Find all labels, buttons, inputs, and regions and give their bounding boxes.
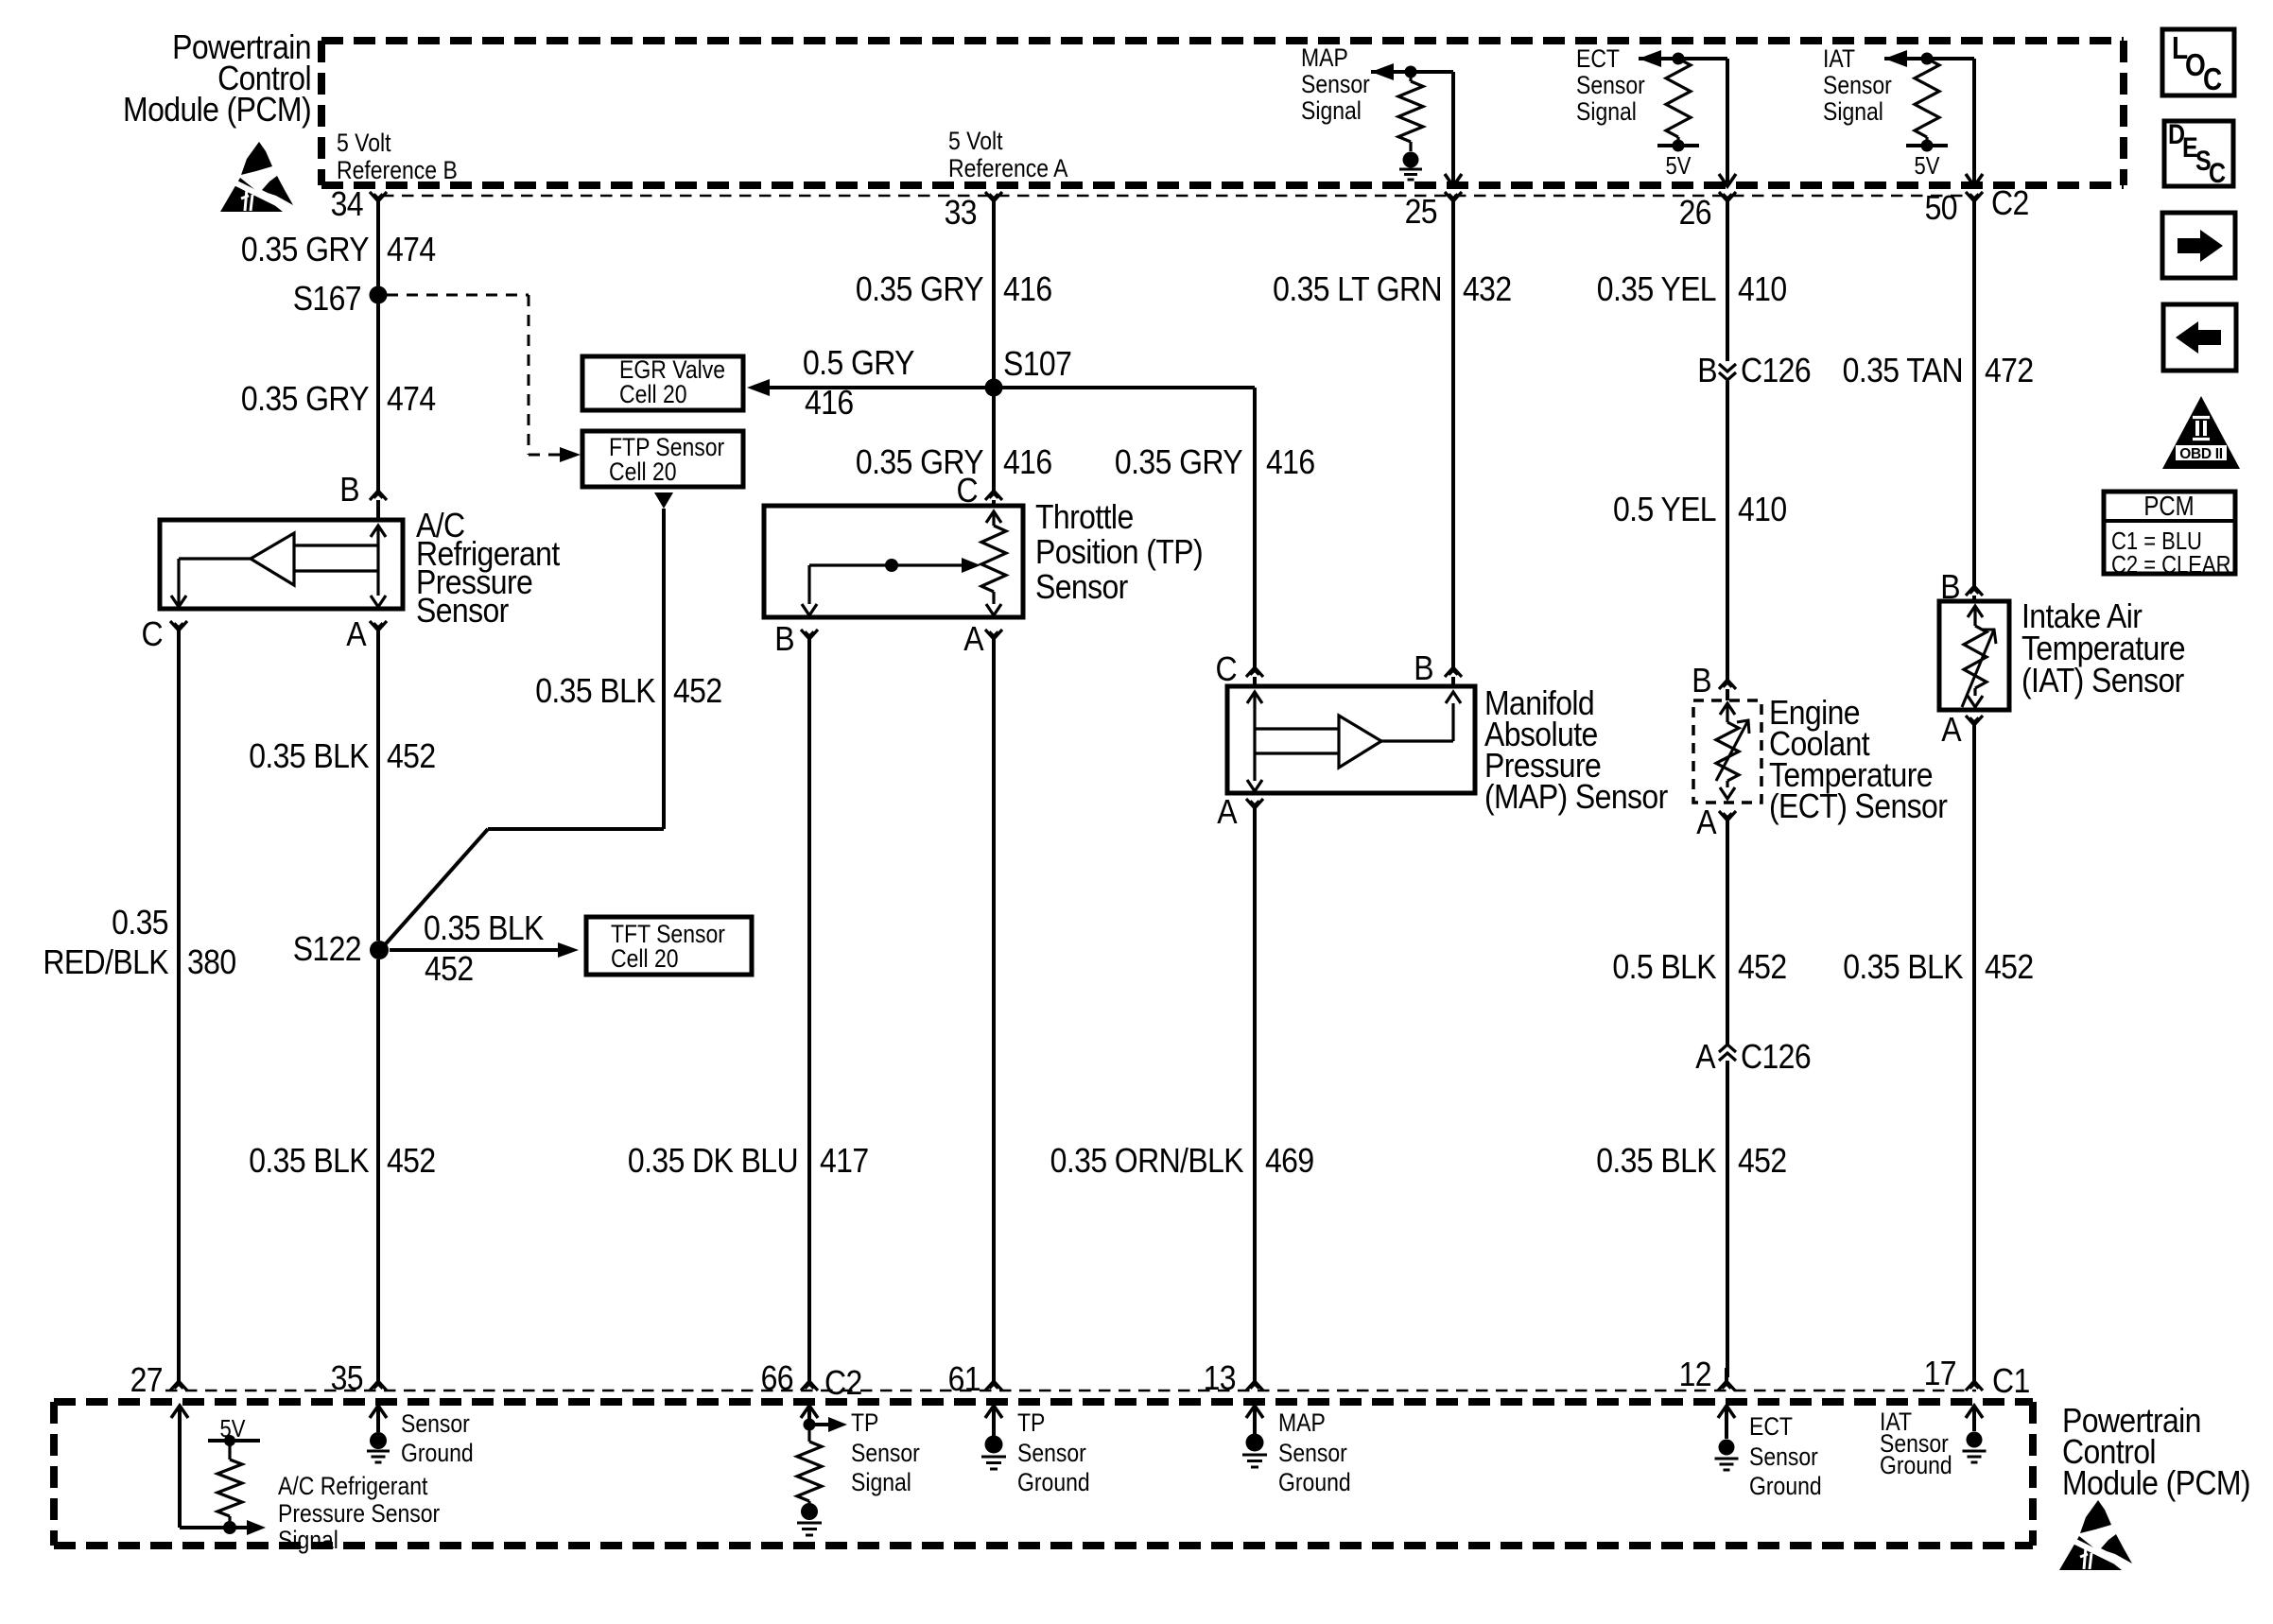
pin label C (MAP sensor) — [1215, 650, 1237, 688]
label 0.35 BLK 452 (bottom) — [249, 1142, 435, 1180]
label Engine Coolant Temperature (ECT) Sensor — [1769, 694, 1948, 825]
label 5V (ECT) — [1666, 152, 1692, 180]
arrow into TFT sensor — [558, 942, 579, 958]
connector pin 13 (PCM bottom) — [1246, 1368, 1263, 1391]
label 0.35 BLK 452 (ECT ground wire) — [1596, 1142, 1786, 1180]
arrow into connector pin 25 — [1445, 174, 1462, 186]
svg-text:C: C — [141, 615, 163, 653]
svg-text:416: 416 — [1003, 270, 1052, 308]
svg-text:Cell 20: Cell 20 — [611, 944, 679, 973]
wire 469 ORN/BLK MAP A to pin13 — [1253, 808, 1257, 1377]
svg-text:0.35 ORN/BLK: 0.35 ORN/BLK — [1050, 1142, 1244, 1180]
svg-text:S122: S122 — [293, 930, 361, 968]
connector pin 66 (PCM bottom) — [801, 1368, 818, 1391]
wire pin26 drop — [1726, 59, 1729, 185]
wire 416 GRY pin33 to S107 — [992, 201, 996, 388]
connector TP sensor pin C — [985, 491, 1002, 506]
icon OBD II triangle — [2162, 396, 2240, 469]
pin label A (TP sensor) — [963, 620, 984, 658]
svg-text:Sensor: Sensor — [416, 592, 509, 630]
svg-text:Reference B: Reference B — [337, 156, 458, 184]
connector pin 35 (PCM bottom) — [370, 1368, 387, 1391]
svg-text:Signal: Signal — [1576, 97, 1637, 126]
svg-text:RED/BLK: RED/BLK — [43, 943, 168, 981]
label connector C1 (bottom) — [1992, 1362, 2030, 1400]
svg-text:25: 25 — [1405, 193, 1437, 231]
svg-text:0.35 LT GRN: 0.35 LT GRN — [1273, 270, 1442, 308]
junction dot A/C 5V — [224, 1435, 235, 1446]
svg-text:0.35: 0.35 — [112, 904, 168, 942]
wire 410 YEL pin26 upper — [1726, 201, 1729, 361]
arrow IAT sensor signal (left) — [1884, 50, 1907, 67]
svg-text:Sensor: Sensor — [401, 1409, 470, 1438]
connector pin 61 (PCM bottom) — [985, 1368, 1002, 1391]
pin label A (IAT sensor) — [1941, 711, 1962, 749]
arrow internal TP B output — [802, 604, 817, 615]
label 0.35 BLK 452 (FTP wire) — [535, 672, 721, 710]
svg-text:66: 66 — [761, 1359, 793, 1397]
ground TP signal — [797, 1523, 822, 1535]
svg-text:Sensor: Sensor — [1278, 1439, 1347, 1467]
arrow internal MAP A output — [1247, 762, 1262, 791]
component Manifold Absolute Pressure Sensor box — [1227, 686, 1475, 793]
svg-text:452: 452 — [1738, 1142, 1787, 1180]
svg-text:Signal: Signal — [1301, 96, 1362, 125]
label connector C2 (bottom) — [824, 1364, 862, 1402]
svg-text:Signal: Signal — [851, 1468, 911, 1496]
svg-text:5V: 5V — [1666, 152, 1692, 180]
wire 452 BLK C126 to pin12 — [1726, 1061, 1729, 1377]
arrow internal ECT input — [1720, 703, 1735, 722]
pin number 17 — [1924, 1355, 1956, 1392]
svg-text:0.35 GRY: 0.35 GRY — [1115, 443, 1243, 481]
svg-text:Ground: Ground — [401, 1439, 474, 1467]
pin label B (ECT sensor) — [1692, 662, 1711, 700]
junction dot TP wiper — [885, 559, 898, 572]
wire 452 BLK IAT A to pin17 — [1972, 722, 1976, 1377]
connector A/C sensor pin B — [370, 491, 387, 520]
wire 416 GRY S107 to EGR — [768, 386, 994, 389]
svg-text:TP: TP — [851, 1408, 878, 1437]
svg-text:B: B — [1697, 352, 1717, 389]
svg-text:0.35 BLK: 0.35 BLK — [1843, 948, 1964, 986]
svg-text:Position (TP): Position (TP) — [1035, 533, 1203, 571]
connector MAP sensor pin C — [1246, 667, 1263, 686]
label 0.5 YEL 410 — [1613, 491, 1787, 528]
svg-text:Signal: Signal — [278, 1526, 338, 1554]
wire internal A/C signal — [180, 1526, 250, 1529]
label C126 (top) — [1741, 352, 1811, 389]
wire dashed S167 to FTP sensor — [387, 295, 567, 455]
label 0.5 BLK 452 — [1612, 948, 1786, 986]
connector pin 33 (PCM C2) — [985, 192, 1002, 201]
svg-text:Module (PCM): Module (PCM) — [2062, 1464, 2250, 1502]
svg-text:452: 452 — [673, 672, 722, 710]
svg-text:17: 17 — [1924, 1355, 1956, 1392]
svg-text:0.35 BLK: 0.35 BLK — [249, 1142, 370, 1180]
arrow internal pin61 TP ground — [985, 1406, 1002, 1436]
arrow IAT variable (diagonal) — [1962, 630, 1996, 707]
wire pin25 drop — [1451, 72, 1455, 185]
connector MAP sensor pin B — [1445, 667, 1462, 686]
svg-text:452: 452 — [1985, 948, 2034, 986]
svg-text:Reference A: Reference A — [948, 154, 1068, 182]
svg-text:(ECT) Sensor: (ECT) Sensor — [1769, 787, 1948, 825]
svg-text:OBD II: OBD II — [2179, 446, 2223, 462]
ground dot pin35 — [370, 1432, 387, 1449]
svg-text:27: 27 — [130, 1361, 163, 1399]
arrow dashed into FTP sensor — [560, 447, 581, 462]
svg-text:Signal: Signal — [1823, 97, 1883, 126]
legend PCM connector colors box — [2104, 491, 2235, 579]
pin label A (MAP sensor) — [1217, 793, 1238, 831]
wire 432 LT GRN pin25 to MAP B — [1451, 201, 1455, 667]
connector pin 25 (PCM C2) — [1445, 192, 1462, 201]
pin number 35 — [331, 1359, 363, 1397]
ground dot pin61 — [985, 1436, 1003, 1454]
connector TP sensor pin A — [985, 630, 1002, 639]
svg-text:410: 410 — [1738, 270, 1787, 308]
connector IAT sensor pin A — [1966, 716, 1983, 725]
svg-text:Sensor: Sensor — [1823, 71, 1892, 99]
svg-text:(MAP) Sensor: (MAP) Sensor — [1484, 778, 1668, 816]
wire 452 BLK FTP to S122 — [381, 509, 664, 949]
svg-text:C2 = CLEAR: C2 = CLEAR — [2111, 551, 2230, 579]
pin number 26 — [1679, 194, 1711, 232]
label IAT Sensor Signal — [1823, 44, 1892, 126]
component FTP Sensor reference box — [582, 431, 743, 487]
junction dot TP signal — [804, 1419, 816, 1431]
label A (C126 bottom) — [1695, 1038, 1716, 1076]
arrow internal MAP B output — [1446, 692, 1461, 703]
label Powertrain Control Module (PCM) bottom-right — [2062, 1402, 2250, 1502]
label TP Sensor Ground — [1017, 1408, 1090, 1496]
connector TP sensor pin B — [801, 630, 818, 639]
ground MAP pullup — [1399, 169, 1422, 180]
label IAT Sensor Ground — [1880, 1408, 1952, 1479]
svg-text:Sensor: Sensor — [1301, 70, 1370, 98]
ground dot pin17 — [1967, 1432, 1983, 1448]
label Sensor Ground (pin35) — [401, 1409, 474, 1467]
svg-text:C1: C1 — [1992, 1362, 2030, 1400]
svg-text:26: 26 — [1679, 194, 1711, 232]
svg-text:474: 474 — [387, 231, 436, 268]
svg-text:C2: C2 — [824, 1364, 862, 1402]
ground pin13 — [1242, 1455, 1267, 1467]
svg-text:0.35 GRY: 0.35 GRY — [241, 231, 370, 268]
svg-text:MAP: MAP — [1301, 43, 1348, 72]
arrow internal ECT output — [1720, 781, 1735, 799]
label 0.5 GRY / 416 (EGR wire) — [803, 344, 915, 422]
svg-text:C126: C126 — [1741, 352, 1811, 389]
op-amp A/C sensor amplifier — [251, 533, 294, 585]
label S122 — [293, 930, 361, 968]
ESD sensitivity symbol top-left — [220, 142, 298, 214]
svg-text:0.5 BLK: 0.5 BLK — [1612, 948, 1716, 986]
ground dot pin13 — [1246, 1434, 1264, 1452]
wire 474 GRY S167 to A/C sensor B — [376, 303, 380, 491]
wire pin50 drop — [1972, 59, 1976, 185]
label 0.35 GRY 416 (upper) — [856, 270, 1052, 308]
pin label B (TP sensor) — [774, 620, 794, 658]
component A/C Refrigerant Pressure Sensor box — [160, 520, 403, 609]
svg-text:50: 50 — [1925, 189, 1957, 227]
connector A/C sensor pin A — [370, 621, 387, 631]
pin number 34 — [331, 185, 363, 223]
pin label B (A/C sensor) — [339, 471, 359, 509]
arrow internal A/C C output — [171, 596, 186, 607]
svg-text:B: B — [1692, 662, 1711, 700]
svg-text:Cell 20: Cell 20 — [609, 458, 677, 486]
svg-text:Sensor: Sensor — [1749, 1443, 1818, 1471]
connector pin 12 (PCM bottom) — [1718, 1368, 1735, 1391]
arrow into connector pin 26 — [1719, 174, 1736, 186]
svg-text:380: 380 — [187, 943, 236, 981]
arrow MAP sensor signal (left) — [1371, 63, 1394, 80]
label ECT Sensor Ground — [1749, 1412, 1822, 1500]
label MAP Sensor Ground — [1278, 1408, 1351, 1496]
svg-text:416: 416 — [1003, 443, 1052, 481]
power 5V rail A/C — [208, 1439, 260, 1443]
arrow internal TP signal — [828, 1417, 847, 1432]
resistor IAT pullup — [1915, 59, 1939, 146]
arrow internal TP wiper into resistor — [962, 558, 980, 573]
ground dot pin12 — [1719, 1440, 1735, 1456]
arrow internal pin13 MAP ground — [1246, 1406, 1263, 1434]
arrow internal pin66 TP signal — [801, 1406, 818, 1425]
pin label C (TP sensor) — [956, 472, 978, 510]
label 0.35 GRY 474 (lower) — [241, 380, 436, 418]
label 5 Volt Reference A — [948, 127, 1068, 182]
junction dot IAT signal — [1921, 53, 1934, 65]
component EGR Valve reference box — [582, 356, 743, 410]
arrow internal TP A output — [986, 592, 1001, 615]
wire MAP signal horizontal — [1371, 70, 1453, 74]
svg-text:Ground: Ground — [1749, 1472, 1822, 1500]
arrow internal IAT output — [1968, 688, 1983, 707]
label 5V (IAT) — [1915, 152, 1940, 180]
arrow internal pin12 ECT ground — [1718, 1406, 1735, 1439]
wire 416 GRY S107 to TP sensor C — [992, 396, 996, 491]
svg-text:Module (PCM): Module (PCM) — [123, 91, 311, 129]
pin number 61 — [948, 1360, 980, 1398]
svg-text:(IAT) Sensor: (IAT) Sensor — [2021, 662, 2184, 700]
junction dot IAT 5V — [1921, 140, 1934, 152]
thermistor IAT — [1964, 626, 1987, 688]
op-amp MAP sensor amplifier — [1339, 716, 1381, 768]
pin number 50 — [1925, 189, 1957, 227]
svg-text:0.35 BLK: 0.35 BLK — [424, 909, 545, 947]
label Manifold Absolute Pressure (MAP) Sensor — [1484, 684, 1668, 816]
svg-text:0.35 TAN: 0.35 TAN — [1843, 352, 1963, 389]
svg-text:0.35 DK BLU: 0.35 DK BLU — [628, 1142, 798, 1180]
svg-text:TP: TP — [1017, 1408, 1045, 1437]
svg-text:35: 35 — [331, 1359, 363, 1397]
label Powertrain Control Module (PCM) top-left — [123, 28, 311, 129]
svg-text:C: C — [2203, 62, 2222, 97]
label C126 (bottom) — [1741, 1038, 1811, 1076]
resistor ECT pullup — [1666, 59, 1691, 146]
connector C2 interface dashed line (top) — [382, 195, 1969, 198]
component Throttle Position Sensor box — [764, 506, 1023, 617]
label A/C Refrigerant Pressure Sensor — [416, 507, 561, 630]
svg-text:416: 416 — [805, 384, 854, 422]
arrow internal A/C signal right — [247, 1520, 266, 1535]
label 0.35 GRY 416 (lower right) — [1115, 443, 1315, 481]
svg-text:C2: C2 — [1991, 184, 2029, 222]
connector MAP sensor pin A — [1246, 799, 1263, 808]
arrow into connector pin 50 — [1966, 174, 1983, 186]
connector pin 34 (PCM C2) — [370, 192, 387, 201]
svg-text:432: 432 — [1463, 270, 1512, 308]
svg-text:452: 452 — [387, 737, 436, 775]
arrow internal A/C B input — [371, 526, 386, 571]
arrow internal IAT input — [1968, 606, 1983, 626]
wire 410 YEL C126 to ECT B — [1726, 381, 1729, 680]
label A/C Refrigerant Pressure Sensor Signal — [278, 1472, 440, 1554]
svg-text:416: 416 — [1266, 443, 1315, 481]
svg-text:A: A — [1941, 711, 1962, 749]
svg-text:0.35 GRY: 0.35 GRY — [856, 270, 984, 308]
pin number 33 — [945, 194, 977, 232]
connector C126 pin B inline — [1719, 364, 1736, 380]
resistor TP signal pulldown — [797, 1425, 822, 1505]
svg-text:B: B — [774, 620, 794, 658]
wire internal A/C amp output — [179, 559, 251, 596]
resistor MAP pullup — [1398, 72, 1423, 151]
label 5V (A/C) — [220, 1415, 246, 1443]
label TP Sensor Signal — [851, 1408, 920, 1496]
label connector C2 (top) — [1991, 184, 2029, 222]
pin number 25 — [1405, 193, 1437, 231]
label MAP Sensor Signal — [1301, 43, 1370, 125]
arrow internal pin27 (A/C signal input) — [171, 1406, 188, 1528]
svg-text:0.35 BLK: 0.35 BLK — [1596, 1142, 1717, 1180]
arrow internal MAP C input — [1247, 692, 1262, 762]
svg-text:A: A — [1696, 803, 1717, 841]
pin number 12 — [1679, 1356, 1711, 1393]
svg-text:61: 61 — [948, 1360, 980, 1398]
svg-text:34: 34 — [331, 185, 363, 223]
pin label C (A/C sensor) — [141, 615, 163, 653]
power 5V rail ECT — [1657, 144, 1699, 147]
svg-text:A: A — [1217, 793, 1238, 831]
svg-text:C: C — [2209, 157, 2226, 188]
wire 452 BLK ECT A to C126 A — [1726, 818, 1729, 1045]
svg-text:Throttle: Throttle — [1035, 498, 1134, 536]
pin number 27 — [130, 1361, 163, 1399]
svg-text:417: 417 — [820, 1142, 869, 1180]
pin label A (A/C sensor) — [346, 615, 367, 653]
svg-text:0.5 YEL: 0.5 YEL — [1613, 491, 1716, 528]
label B (C126 top) — [1697, 352, 1717, 389]
svg-text:472: 472 — [1985, 352, 2034, 389]
svg-text:A: A — [963, 620, 984, 658]
component Intake Air Temperature Sensor box — [1939, 601, 2009, 710]
svg-text:0.35 GRY: 0.35 GRY — [241, 380, 370, 418]
arrow internal A/C A output — [371, 571, 386, 607]
label 0.35 DK BLU 417 — [628, 1142, 869, 1180]
arrow ECT variable (diagonal) — [1716, 720, 1749, 781]
junction dot ECT 5V — [1673, 140, 1685, 152]
wire internal MAP branches — [1255, 729, 1339, 753]
svg-text:S167: S167 — [293, 280, 361, 318]
thermistor ECT — [1716, 722, 1739, 781]
connector ECT sensor pin B — [1719, 680, 1736, 700]
connector pin 27 (PCM bottom) — [170, 1368, 187, 1391]
label S167 — [293, 280, 361, 318]
connector C1/C2 interface dashed line (bottom) — [165, 1390, 1976, 1392]
connector A/C sensor pin C — [170, 621, 187, 631]
label ECT Sensor Signal — [1576, 44, 1645, 126]
svg-text:Sensor: Sensor — [851, 1439, 920, 1467]
svg-text:PCM: PCM — [2143, 491, 2194, 521]
pin number 66 — [761, 1359, 793, 1397]
wire 452 BLK S122 to pin35 — [376, 959, 380, 1377]
svg-text:0.35 BLK: 0.35 BLK — [249, 737, 370, 775]
pin label A (ECT sensor) — [1696, 803, 1717, 841]
icon DESC box — [2164, 118, 2233, 188]
label FTP Sensor Cell 20 — [609, 433, 724, 486]
label 0.35 TAN 472 — [1843, 352, 2034, 389]
ground dot MAP pullup — [1403, 152, 1419, 168]
ground dot TP signal — [801, 1503, 818, 1520]
svg-text:452: 452 — [425, 950, 474, 988]
svg-text:A: A — [1695, 1038, 1716, 1076]
wire internal A/C branches — [294, 545, 378, 571]
wire internal MAP amp output — [1381, 703, 1453, 741]
pin label B (MAP sensor) — [1414, 649, 1433, 687]
svg-text:B: B — [1414, 649, 1433, 687]
label Throttle Position (TP) Sensor — [1035, 498, 1203, 606]
svg-text:0.5 GRY: 0.5 GRY — [803, 344, 915, 382]
ground pin12 — [1715, 1459, 1739, 1470]
label 0.35 BLK / 452 (TFT wire) — [424, 909, 545, 988]
svg-text:A: A — [346, 615, 367, 653]
wire 452 BLK A/C A to S122 — [376, 629, 380, 941]
label 0.35 YEL 410 — [1597, 270, 1787, 308]
wire 416 GRY S107 to MAP sensor C — [994, 388, 1255, 667]
wire ECT signal horizontal — [1639, 57, 1727, 60]
junction dot MAP signal — [1405, 66, 1417, 78]
label 0.35 GRY 416 (lower left) — [856, 443, 1052, 481]
icon forward arrow box — [2162, 213, 2235, 278]
resistor TP potentiometer — [981, 526, 1006, 592]
svg-text:Sensor: Sensor — [1576, 71, 1645, 99]
pin number 13 — [1204, 1359, 1236, 1397]
arrow internal TP C input — [986, 511, 1001, 526]
svg-text:ECT: ECT — [1576, 44, 1620, 73]
node S122 splice — [370, 941, 389, 959]
svg-text:B: B — [339, 471, 359, 509]
connector pin 50 (PCM C2) — [1966, 192, 1983, 201]
arrow FTP output down — [654, 492, 673, 509]
label 0.35 LT GRN 432 — [1273, 270, 1511, 308]
resistor A/C pulldown — [217, 1441, 242, 1522]
svg-text:469: 469 — [1265, 1142, 1314, 1180]
svg-text:S107: S107 — [1003, 345, 1071, 383]
label 0.35 ORN/BLK 469 — [1050, 1142, 1314, 1180]
ground pin17 — [1963, 1451, 1987, 1462]
node S107 splice — [985, 379, 1003, 397]
label Intake Air Temperature (IAT) Sensor — [2021, 597, 2185, 700]
icon back arrow box — [2163, 304, 2236, 371]
wire 472 TAN pin50 to IAT B — [1972, 201, 1976, 586]
svg-text:452: 452 — [1738, 948, 1787, 986]
wire 452 BLK S122 to TFT sensor — [390, 948, 558, 952]
svg-text:474: 474 — [387, 380, 436, 418]
svg-text:C126: C126 — [1741, 1038, 1811, 1076]
